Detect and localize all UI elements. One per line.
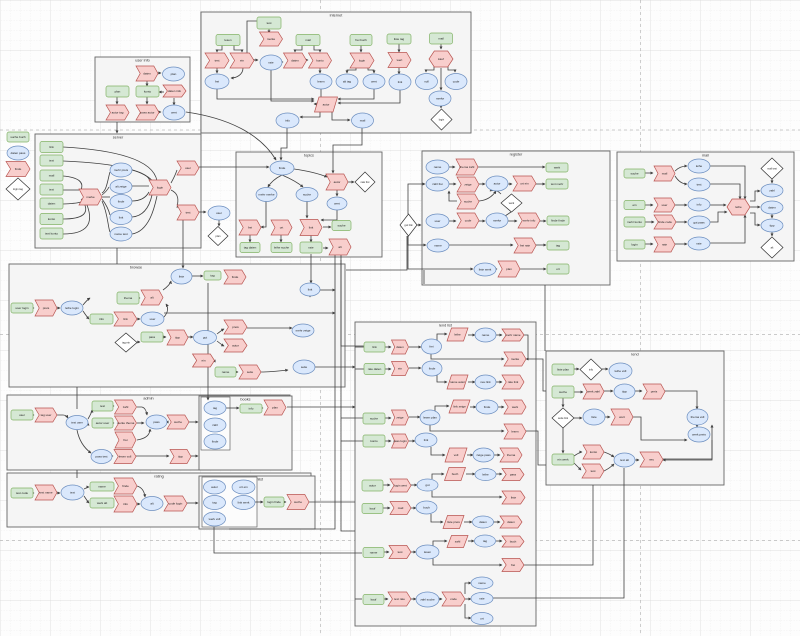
svg-text:info: info (123, 502, 128, 506)
svg-text:server: server (113, 136, 124, 140)
svg-text:link: link (398, 80, 403, 84)
wires internet (268, 29, 270, 33)
svg-text:zahl: zahl (769, 189, 775, 193)
nodes books (204, 401, 226, 415)
svg-text:user login: user login (15, 306, 28, 310)
svg-text:kauf: kauf (371, 598, 377, 602)
svg-text:autor tag: autor tag (112, 111, 124, 115)
svg-text:pass login: pass login (393, 439, 407, 443)
svg-text:liste: liste (179, 275, 185, 279)
svg-text:zahl: zahl (123, 405, 129, 409)
svg-text:werk zahl: werk zahl (587, 390, 600, 394)
svg-text:rate: rate (268, 61, 274, 65)
svg-text:rate: rate (479, 597, 485, 601)
svg-text:code: code (450, 597, 457, 601)
svg-text:suche: suche (630, 172, 638, 176)
svg-text:lesen voll: lesen voll (119, 455, 132, 459)
container lend (546, 351, 724, 485)
svg-text:seite link: seite link (558, 416, 569, 420)
svg-text:merke: merke (493, 219, 502, 223)
svg-text:plan: plan (272, 406, 278, 410)
svg-text:finde: finde (212, 440, 219, 444)
svg-text:mehr merke: mehr merke (258, 193, 274, 197)
container browse (9, 264, 345, 387)
svg-text:name autor: name autor (450, 380, 465, 384)
svg-text:konto: konto (370, 439, 378, 443)
svg-text:daten: daten (479, 520, 487, 524)
svg-text:alt: alt (150, 502, 153, 506)
svg-text:seite: seite (247, 370, 254, 374)
svg-text:link: link (308, 288, 313, 292)
svg-text:liste tag: liste tag (394, 37, 405, 41)
nodes internet (257, 17, 281, 29)
svg-text:internet: internet (330, 14, 344, 18)
svg-text:autor: autor (369, 484, 376, 488)
svg-text:mail: mail (438, 37, 444, 41)
svg-text:buch: buch (423, 506, 430, 510)
svg-text:leihe: leihe (482, 473, 489, 477)
svg-text:tag: tag (483, 539, 488, 543)
svg-text:zahl: zahl (455, 540, 461, 544)
svg-text:frei: frei (248, 226, 253, 230)
wires user/being (199, 211, 206, 213)
svg-text:wert: wert (619, 415, 625, 419)
svg-text:name: name (434, 244, 442, 248)
svg-text:test: test (591, 469, 596, 473)
svg-text:login wert: login wert (394, 484, 407, 488)
svg-text:user: user (662, 203, 668, 207)
svg-text:werk voll: werk voll (209, 517, 221, 521)
svg-text:name: name (478, 581, 486, 585)
svg-text:zeige pass: zeige pass (476, 453, 491, 457)
svg-text:mail test: mail test (767, 167, 777, 171)
svg-text:test: test (186, 211, 191, 215)
svg-text:login: login (359, 59, 366, 63)
legend (7, 132, 29, 142)
svg-text:frei: frei (429, 345, 434, 349)
svg-text:plan: plan (216, 234, 221, 238)
svg-text:login tag: login tag (13, 187, 23, 191)
svg-text:finde: finde (429, 367, 436, 371)
wires user info (146, 81, 148, 86)
svg-text:rate link: rate link (508, 380, 519, 384)
svg-text:rate: rate (696, 242, 702, 246)
svg-text:link zeige: link zeige (453, 405, 466, 409)
svg-text:zahl: zahl (212, 423, 218, 427)
svg-text:test: test (398, 550, 403, 554)
svg-text:test: test (697, 183, 702, 187)
nodes mail (624, 169, 645, 178)
container topics (236, 152, 382, 257)
svg-text:alt: alt (150, 296, 153, 300)
svg-text:lend list: lend list (439, 324, 453, 328)
container books (199, 396, 292, 470)
svg-text:mehr name: mehr name (505, 333, 521, 337)
svg-text:lesen: lesen (424, 550, 432, 554)
svg-text:leihe suche: leihe suche (274, 246, 290, 250)
svg-text:frei: frei (123, 438, 128, 442)
svg-text:merke: merke (267, 37, 276, 41)
svg-text:link: link (119, 216, 124, 220)
svg-text:autor: autor (334, 180, 341, 184)
svg-text:voll: voll (424, 80, 429, 84)
svg-text:buch: buch (452, 472, 459, 476)
nodes wishlist (204, 480, 226, 494)
svg-text:mehr info: mehr info (523, 219, 536, 223)
svg-text:suche buch: suche buch (10, 135, 26, 139)
long connectors (229, 255, 335, 529)
svg-text:tag: tag (212, 501, 217, 505)
svg-text:login: login (631, 243, 638, 247)
svg-text:konto: konto (590, 450, 598, 454)
svg-text:admin: admin (143, 397, 153, 401)
svg-text:autor user: autor user (96, 421, 110, 425)
svg-text:suche: suche (559, 390, 567, 394)
svg-text:code: code (465, 219, 472, 223)
svg-text:merke: merke (86, 195, 95, 199)
svg-text:lesen: lesen (224, 38, 232, 42)
wires register (449, 166, 455, 168)
svg-text:pass: pass (153, 420, 160, 424)
nodes lend list (364, 342, 385, 352)
svg-text:wert: wert (371, 80, 377, 84)
svg-text:plan: plan (171, 72, 177, 76)
nodes topics (270, 161, 294, 175)
svg-text:ein: ein (398, 367, 402, 371)
svg-text:user: user (216, 211, 222, 215)
svg-text:konto: konto (144, 90, 152, 94)
svg-text:test: test (100, 404, 105, 408)
svg-text:preis: preis (43, 306, 50, 310)
svg-text:frei buch: frei buch (355, 38, 367, 42)
svg-text:link werk: link werk (238, 501, 250, 505)
svg-text:test: test (215, 59, 220, 63)
svg-text:lend: lend (631, 353, 638, 357)
svg-text:login: login (157, 186, 164, 190)
svg-text:test: test (267, 21, 272, 25)
svg-text:finde: finde (118, 200, 125, 204)
svg-text:suche: suche (337, 224, 345, 228)
svg-text:ein: ein (201, 359, 205, 363)
svg-text:info: info (285, 119, 290, 123)
svg-text:gut link: gut link (404, 223, 413, 227)
svg-text:frei: frei (511, 563, 516, 567)
svg-text:seite: seite (301, 365, 308, 369)
container admin (7, 395, 290, 470)
svg-text:preis: preis (232, 325, 239, 329)
svg-text:tag: tag (556, 244, 561, 248)
svg-text:mail: mail (398, 506, 404, 510)
svg-text:tag: tag (210, 274, 215, 278)
nodes browse (11, 303, 33, 313)
wires admin (33, 414, 34, 416)
svg-text:ein werk: ein werk (557, 458, 569, 462)
svg-text:text name: text name (39, 491, 53, 495)
svg-text:ein: ein (632, 203, 636, 207)
svg-text:user: user (19, 413, 25, 417)
svg-text:tag: tag (213, 406, 218, 410)
svg-text:finde: finde (232, 275, 239, 279)
svg-text:rate daten: rate daten (368, 367, 382, 371)
svg-text:daten info: daten info (168, 89, 182, 93)
svg-text:daten pass: daten pass (11, 151, 26, 155)
svg-text:frei: frei (215, 80, 220, 84)
svg-text:tipp: tipp (622, 390, 627, 394)
svg-text:kauf: kauf (438, 57, 444, 61)
svg-text:thema: thema (124, 296, 133, 300)
svg-text:info: info (697, 203, 702, 207)
svg-text:suche: suche (370, 417, 378, 421)
svg-text:rate: rate (308, 246, 314, 250)
svg-text:leihe login: leihe login (65, 306, 79, 310)
svg-text:neu link: neu link (480, 380, 491, 384)
svg-text:lesen plan: lesen plan (423, 416, 437, 420)
svg-text:info: info (249, 407, 254, 411)
svg-text:ort: ort (556, 267, 560, 271)
svg-text:suche: suche (174, 420, 182, 424)
svg-text:test code: test code (16, 491, 29, 495)
svg-text:liste: liste (591, 415, 597, 419)
svg-text:ort ein: ort ein (520, 182, 529, 186)
svg-text:zeige: zeige (396, 416, 404, 420)
svg-text:finde: finde (484, 405, 491, 409)
svg-text:pass test: pass test (95, 455, 107, 459)
svg-text:thema zahl: thema zahl (460, 165, 475, 169)
svg-text:browse: browse (130, 266, 142, 270)
svg-text:code login: code login (169, 502, 183, 506)
svg-text:gut: gut (425, 483, 429, 487)
svg-text:text: text (49, 159, 54, 163)
svg-text:zahl frei: zahl frei (432, 182, 443, 186)
svg-text:text: text (49, 188, 54, 192)
svg-text:link: link (372, 345, 377, 349)
svg-text:alt tag: alt tag (343, 80, 352, 84)
svg-text:name: name (434, 165, 442, 169)
svg-text:text alt: text alt (620, 458, 629, 462)
svg-text:pass autor: pass autor (140, 111, 154, 115)
svg-text:pass: pass (510, 473, 517, 477)
svg-text:text rate: text rate (394, 597, 405, 601)
svg-text:rate: rate (662, 243, 668, 247)
svg-text:mail: mail (360, 119, 366, 123)
svg-text:topics: topics (304, 154, 314, 158)
svg-text:konto: konto (316, 59, 324, 63)
svg-text:finde: finde (279, 166, 286, 170)
svg-text:merke thema: merke thema (117, 421, 135, 425)
svg-text:mail: mail (702, 154, 709, 158)
svg-text:liste preis: liste preis (447, 520, 460, 524)
svg-text:merke: merke (436, 97, 445, 101)
svg-text:link: link (49, 145, 54, 149)
svg-text:ort: ort (280, 226, 284, 230)
svg-text:code: code (453, 80, 460, 84)
container server (35, 134, 201, 248)
svg-text:finde: finde (15, 167, 22, 171)
svg-text:werk: werk (512, 405, 519, 409)
svg-text:werk: werk (554, 166, 561, 170)
svg-text:link: link (123, 317, 128, 321)
svg-text:info: info (99, 317, 104, 321)
svg-text:user: user (185, 166, 191, 170)
svg-text:alt: alt (771, 246, 774, 250)
svg-text:text mehr: text mehr (551, 182, 564, 186)
svg-text:user: user (150, 317, 156, 321)
svg-text:login: login (439, 118, 445, 122)
svg-text:thema: thema (507, 453, 516, 457)
svg-text:preis: preis (651, 390, 658, 394)
nodes lend (552, 364, 574, 375)
nodes user info (136, 66, 158, 81)
svg-text:link: link (309, 226, 314, 230)
svg-text:lesen: lesen (511, 430, 519, 434)
wires server curves (63, 147, 157, 181)
svg-text:rate frei: rate frei (361, 180, 370, 184)
svg-text:daten: daten (291, 59, 299, 63)
svg-text:user: user (435, 219, 441, 223)
svg-text:autor: autor (323, 103, 330, 107)
svg-text:alt: alt (338, 245, 341, 249)
svg-text:plan: plan (506, 267, 512, 271)
svg-text:login finde: login finde (267, 500, 281, 504)
svg-text:autor: autor (211, 485, 218, 489)
svg-text:lesen: lesen (317, 80, 325, 84)
svg-text:mehr preis: mehr preis (114, 168, 129, 172)
wires rating (33, 492, 34, 494)
svg-text:link: link (424, 438, 429, 442)
svg-text:name test: name test (114, 232, 127, 236)
svg-text:pass: pass (149, 335, 156, 339)
wires mail (645, 172, 653, 174)
svg-text:gut pass: gut pass (693, 221, 705, 225)
svg-text:werk: werk (509, 201, 515, 205)
wires wishlist (255, 501, 263, 503)
svg-text:text: text (70, 491, 75, 495)
svg-text:plan: plan (115, 90, 121, 94)
svg-text:wert: wert (334, 202, 340, 206)
svg-text:info: info (589, 368, 594, 372)
svg-text:text konto: text konto (45, 232, 58, 236)
svg-text:rating: rating (154, 475, 164, 479)
svg-text:finde: finde (122, 484, 129, 488)
svg-text:gut: gut (203, 336, 207, 340)
svg-text:mail: mail (662, 172, 668, 176)
svg-text:tag user: tag user (41, 413, 52, 417)
svg-text:konto: konto (48, 217, 56, 221)
svg-text:finde finde: finde finde (551, 219, 565, 223)
svg-text:werk alt: werk alt (97, 501, 108, 505)
svg-text:daten: daten (48, 202, 56, 206)
svg-text:finde code: finde code (658, 220, 672, 224)
container mail (617, 152, 794, 261)
wires topics (268, 175, 282, 187)
wires books (226, 407, 239, 409)
svg-text:liste werk: liste werk (479, 268, 492, 272)
svg-text:thema voll: thema voll (691, 415, 705, 419)
svg-text:autor: autor (494, 182, 501, 186)
container internet (201, 12, 471, 133)
svg-text:wert: wert (171, 111, 177, 115)
svg-text:alt zeige: alt zeige (115, 185, 127, 189)
svg-text:text user: text user (71, 421, 83, 425)
svg-text:leihe: leihe (735, 205, 742, 209)
svg-text:liste plan: liste plan (557, 368, 569, 372)
container user info (95, 57, 190, 122)
svg-text:ort ein: ort ein (239, 485, 248, 489)
container wishlist (199, 476, 315, 529)
svg-text:leihe: leihe (696, 164, 703, 168)
svg-text:suche: suche (294, 500, 302, 504)
svg-text:tag daten: tag daten (244, 246, 257, 250)
svg-text:daten: daten (143, 72, 151, 76)
svg-text:ein: ein (240, 59, 244, 63)
svg-text:tipp: tipp (178, 455, 183, 459)
nodes admin (11, 410, 33, 420)
container register (422, 151, 610, 285)
nodes server (40, 142, 63, 153)
wires lendlist (385, 346, 391, 348)
svg-text:name: name (222, 370, 230, 374)
wires lend (574, 368, 579, 370)
svg-text:tag ein: tag ein (122, 341, 130, 345)
svg-text:mail: mail (305, 38, 311, 42)
svg-text:autor: autor (232, 344, 239, 348)
svg-text:merke: merke (511, 357, 520, 361)
svg-text:frei rate: frei rate (520, 244, 531, 248)
svg-text:zeige: zeige (464, 183, 472, 187)
svg-text:ort: ort (480, 617, 484, 621)
svg-text:tipp: tipp (770, 224, 775, 228)
svg-text:kauf: kauf (370, 507, 376, 511)
svg-text:werk preis: werk preis (692, 433, 706, 437)
svg-text:liste: liste (511, 496, 517, 500)
svg-text:neu: neu (649, 458, 654, 462)
nodes rating (11, 488, 33, 498)
svg-text:mehr konto: mehr konto (627, 220, 642, 224)
svg-text:register: register (510, 153, 523, 157)
svg-text:name: name (370, 551, 378, 555)
svg-text:leihe voll: leihe voll (615, 369, 627, 373)
svg-text:user info: user info (135, 59, 150, 63)
svg-text:voll: voll (454, 453, 459, 457)
svg-text:books: books (240, 398, 250, 402)
wires browse (33, 307, 34, 309)
svg-text:suche: suche (464, 200, 472, 204)
svg-text:tipp: tipp (175, 336, 180, 340)
svg-text:mehr zeige: mehr zeige (296, 329, 311, 333)
svg-text:zahl suche: zahl suche (420, 598, 435, 602)
container lend list (355, 322, 536, 626)
container rating (7, 473, 311, 527)
svg-text:mail: mail (49, 174, 55, 178)
svg-text:leihe: leihe (454, 333, 461, 337)
svg-text:daten: daten (507, 520, 515, 524)
nodes register (426, 160, 449, 174)
svg-text:buch: buch (510, 540, 517, 544)
svg-text:name: name (98, 485, 106, 489)
svg-text:daten: daten (396, 345, 404, 349)
svg-text:suche: suche (303, 193, 311, 197)
svg-text:wert: wert (397, 58, 403, 62)
svg-text:daten: daten (768, 206, 776, 210)
svg-text:name: name (482, 333, 490, 337)
